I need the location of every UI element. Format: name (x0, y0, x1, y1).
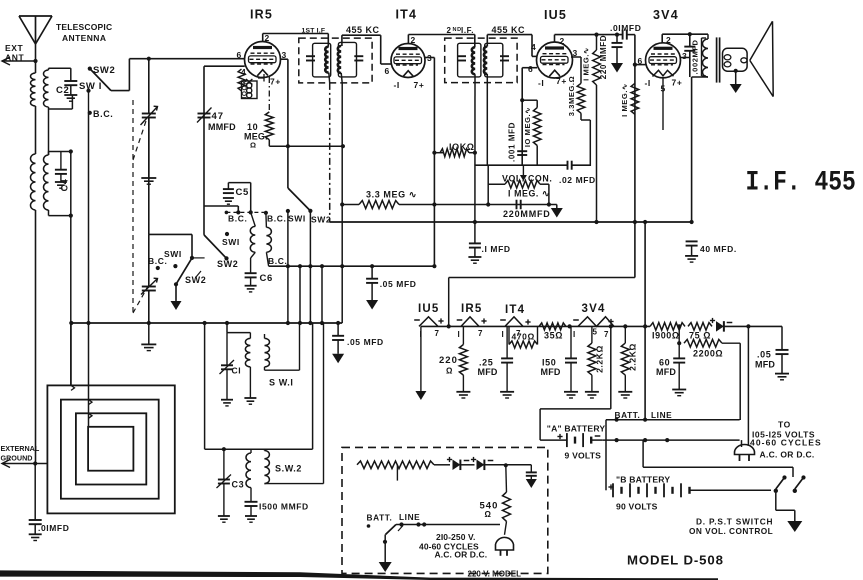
svg-text:IOOK: IOOK (242, 79, 249, 98)
svg-text:I.F.: I.F. (461, 26, 474, 35)
svg-text:EXTERNAL: EXTERNAL (1, 444, 40, 453)
svg-text:IU5: IU5 (418, 303, 440, 315)
svg-text:.02 MFD: .02 MFD (559, 175, 596, 185)
svg-text:TO: TO (778, 420, 791, 430)
svg-text:9 VOLTS: 9 VOLTS (565, 451, 602, 461)
svg-text:2: 2 (447, 26, 452, 35)
svg-text:EXT: EXT (5, 43, 24, 53)
svg-text:SW2: SW2 (217, 259, 238, 269)
svg-text:C4: C4 (60, 179, 70, 192)
svg-text:I MEG. ∿: I MEG. ∿ (508, 189, 550, 199)
svg-text:.001 MFD: .001 MFD (508, 122, 517, 162)
svg-text:IU5: IU5 (544, 8, 567, 22)
svg-text:2: 2 (411, 35, 416, 45)
svg-text:7+: 7+ (414, 80, 425, 90)
svg-text:Ω: Ω (446, 367, 453, 376)
svg-text:SWI: SWI (222, 237, 240, 247)
svg-text:90 VOLTS: 90 VOLTS (616, 502, 658, 512)
svg-text:7: 7 (604, 330, 609, 339)
svg-text:C2: C2 (56, 85, 69, 96)
svg-text:MFD: MFD (755, 360, 775, 370)
svg-text:60: 60 (659, 358, 670, 368)
svg-text:ANTENNA: ANTENNA (62, 33, 106, 43)
svg-text:IT4: IT4 (505, 304, 525, 316)
svg-text:MFD: MFD (478, 367, 498, 377)
svg-text:455 KC: 455 KC (492, 25, 526, 35)
svg-text:7: 7 (478, 329, 483, 338)
svg-text:CI: CI (232, 366, 242, 376)
svg-text:.002MFD: .002MFD (691, 39, 700, 74)
svg-text:10: 10 (247, 122, 258, 132)
svg-text:IOKΩ: IOKΩ (449, 142, 475, 152)
svg-text:I900Ω: I900Ω (652, 331, 680, 341)
svg-text:-I: -I (538, 78, 544, 88)
svg-text:D. P.S.T SWITCH: D. P.S.T SWITCH (696, 517, 773, 527)
svg-text:"A" BATTERY: "A" BATTERY (547, 424, 606, 434)
svg-text:.0IMFD: .0IMFD (38, 523, 69, 533)
svg-text:I.F. 455: I.F. 455 (746, 167, 856, 199)
svg-text:BATT.: BATT. (367, 513, 393, 523)
svg-text:IT4: IT4 (396, 8, 418, 22)
svg-text:2.2KΩ: 2.2KΩ (595, 345, 605, 373)
svg-text:Ω: Ω (250, 141, 257, 150)
svg-text:MFD: MFD (541, 367, 561, 377)
svg-text:A.C. OR D.C.: A.C. OR D.C. (760, 450, 815, 460)
svg-text:2.2KΩ: 2.2KΩ (628, 343, 638, 371)
svg-text:470Ω: 470Ω (512, 332, 535, 342)
svg-text:3.3 MEG ∿: 3.3 MEG ∿ (366, 190, 417, 200)
svg-text:-I: -I (394, 80, 400, 90)
svg-text:LINE: LINE (651, 410, 672, 420)
svg-text:B.C.: B.C. (148, 256, 167, 266)
svg-text:2: 2 (560, 36, 565, 46)
svg-text:B.C.: B.C. (268, 256, 287, 266)
svg-text:6: 6 (528, 64, 533, 74)
svg-text:455 KC: 455 KC (346, 25, 380, 35)
svg-text:40-60 CYCLES: 40-60 CYCLES (750, 438, 822, 448)
svg-text:7: 7 (435, 329, 440, 338)
svg-text:.05: .05 (757, 350, 771, 360)
svg-text:BATT.: BATT. (615, 410, 641, 420)
svg-text:IR5: IR5 (461, 303, 483, 315)
svg-text:7+: 7+ (556, 76, 567, 86)
svg-text:1ST I.F: 1ST I.F (302, 28, 326, 35)
svg-text:I50: I50 (542, 358, 556, 368)
svg-text:MMFD: MMFD (208, 122, 236, 132)
svg-text:SWI: SWI (288, 214, 306, 224)
svg-text:-I: -I (645, 78, 651, 88)
svg-text:2: 2 (265, 33, 270, 43)
svg-text:S W.I: S W.I (269, 378, 294, 388)
svg-text:Ω: Ω (485, 510, 492, 519)
svg-text:6: 6 (638, 56, 643, 66)
svg-text:220 MMFD: 220 MMFD (599, 35, 608, 79)
svg-text:I: I (573, 330, 576, 339)
svg-text:2: 2 (666, 35, 671, 45)
svg-text:A.C. OR D.C.: A.C. OR D.C. (435, 550, 488, 560)
svg-text:220MMFD: 220MMFD (503, 209, 551, 219)
svg-text:LINE: LINE (399, 512, 420, 522)
svg-text:.25: .25 (479, 358, 493, 368)
svg-text:I: I (502, 330, 505, 339)
svg-text:3V4: 3V4 (653, 8, 679, 22)
svg-text:220: 220 (439, 355, 458, 366)
svg-text:VOL. CON.: VOL. CON. (502, 174, 552, 184)
svg-text:SW I: SW I (79, 81, 102, 92)
svg-text:3.3MEG.Ω: 3.3MEG.Ω (567, 76, 576, 116)
svg-text:6: 6 (237, 50, 242, 60)
svg-text:B.C.: B.C. (267, 214, 286, 224)
svg-text:40 MFD.: 40 MFD. (700, 244, 737, 254)
svg-text:4: 4 (531, 42, 536, 52)
svg-text:B.C.: B.C. (93, 109, 113, 119)
svg-text:"B BATTERY: "B BATTERY (616, 475, 670, 485)
svg-text:MODEL D-508: MODEL D-508 (627, 553, 724, 568)
svg-text:IR5: IR5 (250, 8, 273, 22)
svg-text:.05 MFD: .05 MFD (380, 279, 417, 289)
svg-text:S.W.2: S.W.2 (275, 464, 302, 474)
svg-text:C3: C3 (232, 480, 245, 490)
svg-text:2200Ω: 2200Ω (693, 349, 723, 359)
svg-text:47: 47 (212, 111, 225, 122)
svg-text:2I0-250 V.: 2I0-250 V. (436, 532, 475, 542)
svg-text:B.C.: B.C. (228, 214, 247, 224)
svg-text:220 V. MODEL: 220 V. MODEL (468, 570, 522, 579)
svg-text:C5: C5 (236, 187, 249, 198)
svg-text:I: I (458, 330, 461, 339)
svg-text:7+: 7+ (270, 77, 281, 87)
svg-text:3: 3 (682, 51, 687, 61)
svg-text:C6: C6 (260, 273, 273, 284)
svg-text:I MEG.∿: I MEG.∿ (620, 83, 629, 117)
svg-text:SW2: SW2 (311, 215, 331, 225)
svg-text:35Ω: 35Ω (544, 331, 563, 341)
svg-text:.I MFD: .I MFD (482, 244, 511, 254)
svg-text:.05 MFD: .05 MFD (347, 337, 384, 347)
svg-text:TELESCOPIC: TELESCOPIC (56, 22, 112, 32)
svg-text:I MEG.∿: I MEG.∿ (582, 47, 591, 81)
svg-text:7+: 7+ (672, 78, 683, 88)
svg-text:ON VOL. CONTROL: ON VOL. CONTROL (689, 526, 773, 536)
svg-text:6: 6 (385, 66, 390, 76)
svg-text:3V4: 3V4 (582, 303, 606, 315)
svg-text:5: 5 (593, 328, 598, 337)
svg-text:IO MEG.∿: IO MEG.∿ (523, 107, 532, 147)
svg-text:MFD: MFD (656, 367, 676, 377)
svg-text:I500 MMFD: I500 MMFD (259, 502, 309, 512)
svg-text:.0IMFD: .0IMFD (610, 23, 641, 33)
